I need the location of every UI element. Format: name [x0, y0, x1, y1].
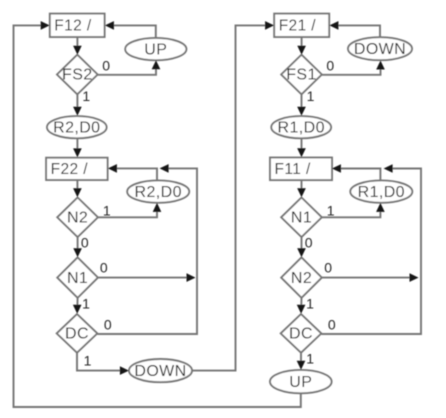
wire F11 to N1: [297, 180, 306, 197]
label 0 on N1 branch: [100, 259, 108, 275]
svg-text:DC: DC: [289, 326, 313, 343]
svg-text:0: 0: [305, 234, 313, 250]
wire N2 "1" branch to side R2,D0: [98, 203, 161, 217]
wire R2,D0 to F22: [73, 138, 82, 157]
wire UP loop back to F12: [14, 21, 301, 407]
label 0 on N2 branch (right): [324, 259, 332, 275]
svg-text:0: 0: [328, 316, 336, 332]
wire R1,D0 to F11: [297, 138, 306, 157]
wire N1 "0" branch to N2: [297, 237, 306, 257]
wire FS2 "1" branch to R2,D0: [73, 94, 82, 116]
wire DOWN up to F21: [192, 21, 274, 371]
wire N1 "1" branch to side R1,D0: [322, 203, 385, 217]
svg-text:0: 0: [81, 234, 89, 250]
wire side R2,D0 back to F22: [108, 164, 157, 180]
decision N2 (left): [57, 198, 98, 238]
wire FS1 "1" branch to R1,D0: [297, 94, 306, 116]
svg-text:FS2: FS2: [62, 67, 93, 84]
wire FS1 "0" branch to DOWN: [322, 61, 385, 75]
wire side R1,D0 back to F11: [332, 164, 381, 180]
wire N2 "1" branch to DC: [297, 298, 306, 314]
svg-text:1: 1: [306, 351, 314, 367]
wire DOWN back to F21: [329, 21, 380, 37]
decision DC (left): [57, 314, 98, 353]
svg-text:F11 /: F11 /: [275, 161, 311, 178]
wire N2 "0" branch to feedback wire: [322, 273, 419, 282]
svg-text:N2: N2: [67, 210, 88, 227]
svg-text:0: 0: [324, 259, 332, 275]
label 0 on N2 branch: [81, 234, 89, 250]
wire N1 "0" branch to feedback wire: [98, 273, 196, 282]
svg-text:N2: N2: [291, 270, 312, 287]
svg-text:DOWN: DOWN: [134, 363, 186, 380]
decision N1 (right): [281, 198, 322, 238]
svg-text:F22 /: F22 /: [51, 161, 89, 178]
label 0 on FS1 branch: [326, 57, 334, 73]
action oval R1,D0 (side): [350, 180, 412, 202]
label 1 on N2 branch (right): [306, 295, 314, 311]
label 1 on DC branch (right): [306, 351, 314, 367]
svg-text:R1,D0: R1,D0: [278, 119, 325, 136]
svg-text:R2,D0: R2,D0: [53, 119, 100, 136]
svg-text:UP: UP: [144, 41, 167, 58]
output oval UP (bottom right): [270, 370, 332, 393]
output oval DOWN (top right): [348, 37, 412, 60]
wire FS2 "0" branch to UP: [98, 60, 161, 75]
svg-text:1: 1: [306, 295, 314, 311]
svg-text:0: 0: [104, 316, 112, 332]
svg-text:DC: DC: [65, 326, 89, 343]
action oval R1,D0 (right): [271, 116, 331, 138]
output oval DOWN (bottom left): [129, 359, 192, 382]
svg-text:1: 1: [84, 352, 92, 368]
svg-text:N1: N1: [67, 270, 88, 287]
wire DC "0" feedback up to F22: [97, 164, 197, 334]
svg-text:0: 0: [102, 57, 110, 73]
state box F22: [46, 158, 108, 180]
label 1 on N1 branch: [82, 295, 90, 311]
wire UP back to F12: [105, 21, 156, 38]
svg-text:F21 /: F21 /: [279, 18, 317, 35]
decision N2 (right): [281, 257, 322, 297]
label 1 on FS2 branch: [82, 88, 90, 104]
wire DC "0" feedback up to F11: [321, 164, 421, 334]
svg-text:0: 0: [100, 259, 108, 275]
svg-text:FS1: FS1: [286, 67, 317, 84]
action oval R2,D0 (left): [47, 116, 107, 138]
label 1 on N2 branch: [103, 202, 111, 218]
svg-text:F12 /: F12 /: [54, 18, 92, 35]
svg-text:0: 0: [326, 57, 334, 73]
wire DC "1" branch to UP: [297, 353, 306, 370]
svg-text:N1: N1: [291, 210, 312, 227]
svg-text:DOWN: DOWN: [354, 41, 406, 58]
svg-text:1: 1: [307, 88, 315, 104]
wire N2 "0" branch to N1: [73, 237, 82, 257]
wire F12 to FS2: [73, 37, 82, 55]
output oval UP (top left): [125, 38, 186, 60]
decision FS1: [281, 55, 322, 95]
label 0 on FS2 branch: [102, 57, 110, 73]
svg-text:1: 1: [103, 202, 111, 218]
label 0 on DC branch: [104, 316, 112, 332]
svg-text:R2,D0: R2,D0: [135, 184, 182, 201]
decision N1 (left): [57, 257, 98, 297]
svg-text:1: 1: [82, 295, 90, 311]
wire N1 "1" branch to DC: [73, 298, 82, 314]
state box F21: [274, 14, 329, 37]
svg-text:R1,D0: R1,D0: [358, 184, 405, 201]
wire F21 to FS1: [297, 37, 306, 55]
state box F11: [270, 158, 332, 181]
wire F22 to N2: [73, 180, 82, 197]
wire DC "1" branch to DOWN: [77, 353, 129, 375]
decision FS2: [57, 55, 98, 95]
label 0 on DC branch (right): [328, 316, 336, 332]
state box F12: [50, 14, 105, 37]
label 0 on N1-N2 branch: [305, 234, 313, 250]
label 1 on N1 branch (right): [327, 202, 335, 218]
svg-text:UP: UP: [289, 374, 312, 391]
label 1 on DC branch: [84, 352, 92, 368]
svg-text:1: 1: [82, 88, 90, 104]
label 1 on FS1 branch: [307, 88, 315, 104]
decision DC (right): [281, 314, 322, 353]
action oval R2,D0 (side): [127, 180, 189, 202]
svg-text:1: 1: [327, 202, 335, 218]
